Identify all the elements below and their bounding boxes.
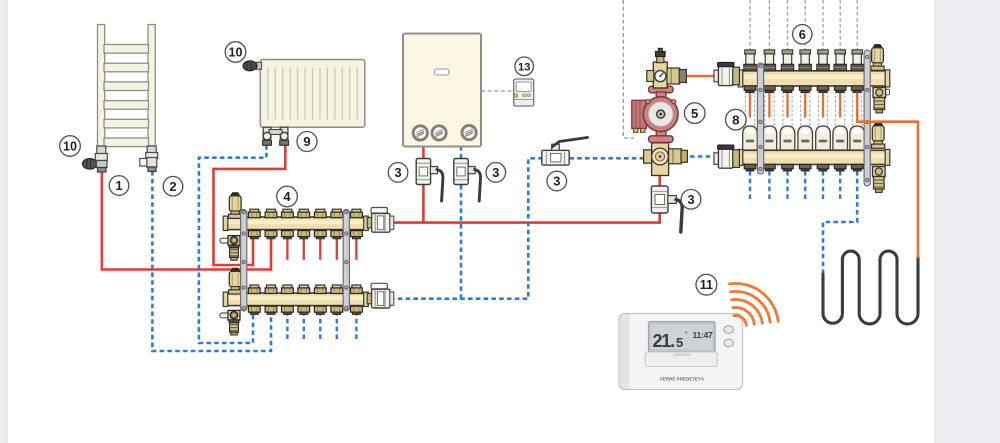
manifold M4 supply nipple 6 (331, 209, 343, 218)
pipe: manifold M6 loop 7 to floor coil (857, 93, 918, 259)
pump top fitting with thermometer (647, 48, 687, 88)
manifold M4 return nipple 7 (351, 285, 363, 294)
pipe: pump outlet to manifold M6 (686, 75, 716, 78)
manifold M8 return bar (738, 149, 890, 165)
left margin strip (0, 0, 7, 443)
ball valve V3c on return line (542, 138, 588, 166)
svg-text:11:47: 11:47 (693, 330, 714, 340)
pipe stubs below manifold M4 supply bar (287, 233, 356, 260)
ball valve V3a on boiler supply (416, 159, 443, 202)
manifold M4 supply outlet 5 (314, 231, 326, 239)
pipe: radiator valve V1 supply to manifold M4 outlet 2 (102, 170, 271, 270)
manifold M8 outlet 4 (799, 164, 811, 171)
label 5 (684, 103, 705, 124)
manifold M8 outlet 2 (764, 164, 776, 171)
svg-text:9: 9 (303, 134, 310, 149)
manifold M4 right support strap (343, 210, 349, 312)
manifold M4 return outlet 2 (265, 306, 277, 314)
drain valve below manifold M8 right end (873, 167, 886, 193)
guide wires between manifold M6 and M8 (745, 91, 861, 127)
air vent on manifold M4 supply bar (229, 193, 242, 219)
drain valve below manifold M6 right end (873, 88, 890, 113)
manifold M6 valve stem 6 (834, 50, 846, 71)
manifold M4 supply outlet 3 (282, 231, 294, 239)
ball valve at manifold M8 left end (714, 145, 739, 168)
panel radiator (260, 60, 365, 128)
manifold M6 valve stem 5 (817, 50, 829, 71)
air vent on manifold M8 right end (872, 123, 885, 149)
room thermostat 11 (619, 314, 743, 390)
ball valve at manifold M4 return right end (367, 283, 394, 308)
mixing valve under pump (644, 139, 688, 176)
svg-text:13: 13 (518, 61, 530, 73)
manifold M8 flow meter 1 (743, 126, 758, 150)
manifold M4 supply nipple 7 (351, 209, 363, 218)
label 11 (696, 274, 717, 295)
valve V1 with thermostatic head 10 (82, 146, 107, 172)
manifold M4 return nipple 6 (331, 285, 343, 294)
manifold M6 outlet 5 (817, 86, 829, 93)
manifold M6 valve stem 2 (763, 50, 775, 71)
manifold M4 supply nipple 3 (282, 209, 294, 218)
manifold M8 flow meter 6 (833, 126, 848, 150)
svg-text:1: 1 (115, 178, 122, 193)
manifold M8 flow meter 5 (816, 126, 831, 150)
manifold M6 outlet 4 (799, 86, 811, 93)
label 8 (726, 109, 747, 130)
pump flange upper (649, 86, 673, 101)
label 4 (277, 186, 298, 207)
label 3 (boiler return valve) (486, 163, 506, 183)
manifold M4 return bar (223, 292, 368, 306)
wire boiler to control 13 (481, 90, 514, 92)
manifold M4 supply nipple 1 (248, 209, 260, 218)
manifold M8 outlet 5 (817, 164, 829, 171)
pipe: boiler return drop (460, 146, 463, 299)
svg-text:FERRE PREDETEYS: FERRE PREDETEYS (660, 377, 704, 382)
drain valve on manifold M4 return bar (220, 310, 240, 335)
manifold M4 return outlet 7 (351, 306, 363, 314)
manifold M4 supply outlet 1 (248, 231, 260, 239)
manifold M4 return nipple 2 (265, 285, 277, 294)
H-block valve under radiator 9 (263, 127, 289, 145)
pipe: main return line to mixing valve (390, 158, 648, 298)
svg-text:10: 10 (63, 140, 77, 154)
ball valve V3d below mixing valve (651, 186, 682, 232)
svg-text:5: 5 (676, 335, 683, 350)
pipe: radiator 9 supply to manifold M4 outlet 1 (214, 145, 286, 265)
manifold M4 supply outlet 6 (331, 231, 343, 239)
manifold M4 supply bar (223, 216, 368, 230)
pipe: radiator 9 return to manifold M4 outlet 1 (199, 145, 267, 343)
manifold M8 flow meter 4 (798, 126, 813, 150)
manifold M8 flow meter 3 (780, 126, 795, 150)
manifold M6 outlet 6 (834, 86, 846, 93)
manifold M6 supply bar (738, 70, 890, 87)
manifold M6 valve stem 3 (781, 50, 793, 71)
wireless signal arcs (730, 283, 779, 325)
wire from top to pump U5 (623, 0, 634, 138)
svg-text:5: 5 (691, 106, 698, 121)
manifold M4 left support strap (241, 210, 247, 312)
manifold M4 supply nipple 2 (265, 209, 277, 218)
towel radiator (98, 25, 156, 147)
label 10 (panel radiator) (225, 42, 246, 63)
air vent on manifold M4 return bar (229, 268, 242, 294)
svg-text:3: 3 (394, 165, 401, 180)
underfloor heating coil (823, 251, 918, 324)
manifold M4 supply outlet 2 (265, 231, 277, 239)
manifold M4 return outlet 5 (314, 306, 326, 314)
manifold M6 right support strap (864, 50, 870, 186)
manifold M4 return outlet 4 (298, 306, 310, 314)
label 1 (109, 176, 129, 196)
manifold M8 outlet 7 (851, 164, 863, 171)
ball valve V3b on boiler return (454, 159, 481, 202)
pipe stubs below manifold M6 (750, 93, 840, 118)
label 2 (163, 176, 183, 196)
manifold M4 return outlet 3 (282, 306, 294, 314)
label 13 (515, 57, 534, 76)
pump flange lower (649, 130, 673, 142)
manifold M4 supply outlet 4 (298, 231, 310, 239)
svg-text:4: 4 (283, 189, 291, 204)
manifold M4 supply nipple 5 (314, 209, 326, 218)
manifold M4 return outlet 6 (331, 306, 343, 314)
manifold M6 outlet 2 (764, 86, 776, 93)
svg-text:6: 6 (799, 27, 806, 42)
label 3 (return line valve) (547, 171, 567, 191)
svg-text:3: 3 (492, 165, 499, 180)
manifold M8 flow meter 7 (850, 126, 865, 150)
label 3 (pump group valve) (681, 190, 701, 210)
manifold M6 outlet 3 (782, 86, 794, 93)
manifold M8 outlet 1 (744, 164, 756, 171)
manifold M8 outlet 6 (834, 164, 846, 171)
control unit 13 (514, 79, 534, 106)
manifold M6 outlet 1 (744, 86, 756, 93)
boiler knob 2 (432, 126, 446, 140)
actuator wires above manifold M6 (750, 0, 857, 51)
boiler knob 3 (462, 126, 476, 140)
svg-text:21.: 21. (653, 331, 675, 351)
label 10 (towel radiator valve) (60, 136, 81, 157)
label 6 (793, 25, 812, 44)
svg-text:3: 3 (687, 192, 694, 207)
manifold M4 return nipple 5 (314, 285, 326, 294)
label 3 (boiler supply valve) (388, 163, 408, 183)
manifold M6 left support strap (757, 63, 763, 174)
manifold M4 return nipple 1 (248, 285, 260, 294)
manifold M4 return nipple 4 (298, 285, 310, 294)
pipe stubs below manifold M4 return bar (287, 311, 356, 340)
svg-text:3: 3 (553, 174, 560, 189)
pipe: mixing valve to manifold M8 (690, 155, 716, 158)
svg-text:2: 2 (169, 179, 176, 194)
pipe: manifold M8 loop 7 to floor coil (823, 171, 857, 275)
circulation pump U5 (632, 97, 678, 133)
ball valve at manifold M4 supply right end (367, 208, 394, 233)
manifold M6 valve stem 4 (799, 50, 811, 71)
label 9 (297, 132, 317, 152)
pipe: boiler supply drop (422, 146, 425, 223)
svg-text:11: 11 (700, 278, 713, 292)
pipe stubs below manifold M8 (750, 171, 840, 200)
manifold M6 outlet 7 (851, 86, 863, 93)
valve V2 lockshield (140, 146, 158, 172)
thermostatic head 10 on radiator (243, 61, 262, 71)
pipe: towel radiator valve V2 return to manifold M4 outlet 2 (152, 171, 271, 351)
manifold M4 supply nipple 4 (298, 209, 310, 218)
manifold M6 valve stem 1 (744, 50, 756, 71)
manifold M8 flow meter 2 (762, 126, 777, 150)
boiler (403, 34, 481, 147)
pipe: main boiler supply line (389, 175, 660, 223)
manifold M4 return outlet 1 (248, 306, 260, 314)
manifold M4 return nipple 3 (282, 285, 294, 294)
svg-text:8: 8 (732, 112, 739, 127)
svg-text:°: ° (685, 330, 688, 338)
svg-text:10: 10 (228, 46, 242, 60)
manifold M4 supply outlet 7 (351, 231, 363, 239)
boiler knob 1 (413, 126, 427, 140)
manifold M8 outlet 3 (782, 164, 794, 171)
drain valve on manifold M4 supply bar (220, 236, 240, 261)
manifold M6 valve stem 7 (851, 50, 863, 71)
ball valve at manifold M6 left end (714, 62, 739, 85)
right margin strip (935, 0, 1000, 443)
air vent on manifold M6 right end (871, 45, 884, 71)
